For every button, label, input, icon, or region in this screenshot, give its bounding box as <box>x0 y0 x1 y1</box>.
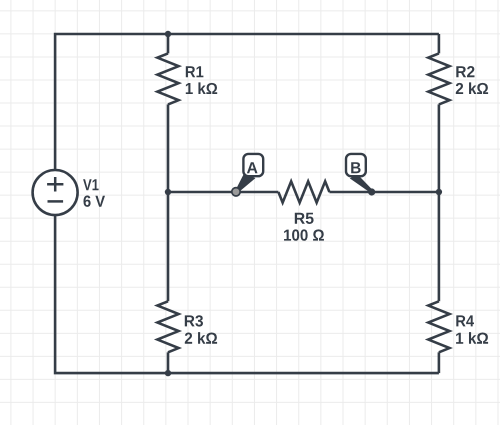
voltage source V1 <box>33 170 78 215</box>
label R3 <box>185 315 203 326</box>
label R3 value <box>185 332 217 344</box>
wire <box>438 34 441 53</box>
wire <box>167 104 170 192</box>
label R4 value <box>456 332 488 344</box>
label R5 value <box>284 229 324 240</box>
callout B <box>346 154 372 192</box>
wire <box>168 191 278 194</box>
label R5 <box>295 213 314 224</box>
wire <box>167 352 170 373</box>
callout A <box>237 154 264 191</box>
resistor R3 <box>157 301 178 352</box>
junction dot <box>165 370 171 376</box>
junction dot <box>165 31 171 37</box>
label V1 <box>83 179 98 190</box>
node B <box>368 188 375 195</box>
label R2 <box>456 66 474 77</box>
wire <box>329 191 439 194</box>
junction dot <box>436 189 442 195</box>
wire <box>167 192 170 301</box>
wire <box>167 34 170 53</box>
junction dot <box>165 189 171 195</box>
resistor R5 <box>278 181 329 202</box>
label R1 value <box>186 82 217 94</box>
label R2 value <box>456 82 488 94</box>
label R4 <box>456 315 474 326</box>
wire <box>438 104 441 301</box>
wire <box>55 34 439 373</box>
label R1 <box>186 66 204 77</box>
resistor R4 <box>428 301 449 352</box>
label V1 value <box>84 196 105 207</box>
wire <box>438 352 441 373</box>
resistor R2 <box>428 53 449 104</box>
resistor R1 <box>157 53 178 104</box>
node A <box>232 188 240 196</box>
